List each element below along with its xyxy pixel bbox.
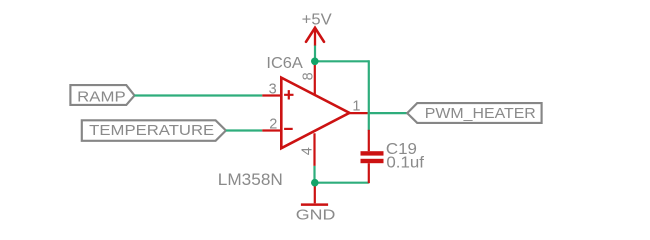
op-amp minus input mark <box>284 128 293 130</box>
wire pin1 to PWM_HEATER <box>368 112 408 114</box>
wire +5V to junction <box>314 46 316 62</box>
capacitor plates <box>361 151 384 155</box>
svg-text:4: 4 <box>300 147 316 155</box>
svg-text:IC6A: IC6A <box>266 55 303 72</box>
pin 4 stub <box>313 133 315 166</box>
svg-text:8: 8 <box>301 72 317 80</box>
svg-text:+5V: +5V <box>302 11 332 28</box>
capacitor top lead <box>368 130 370 151</box>
supply +5V arrow symbol <box>306 28 324 46</box>
wire right vertical (+5V net down to cap) <box>368 60 370 130</box>
wire junction to top-right corner <box>314 60 369 62</box>
pin 1 stub <box>349 112 367 114</box>
svg-text:RAMP: RAMP <box>77 88 126 105</box>
svg-text:3: 3 <box>269 82 277 98</box>
svg-text:PWM_HEATER: PWM_HEATER <box>425 105 536 122</box>
svg-text:TEMPERATURE: TEMPERATURE <box>89 122 214 139</box>
ground symbol <box>296 183 336 224</box>
wire pin4 to junction <box>313 166 315 183</box>
flag TEMPERATURE <box>82 120 226 141</box>
capacitor C19 <box>361 130 425 183</box>
svg-text:1: 1 <box>352 98 360 114</box>
junction dot bottom <box>311 179 319 187</box>
junction dot top <box>311 58 319 66</box>
pin 8 stub <box>314 61 316 95</box>
pin 3 stub <box>262 94 281 96</box>
wire RAMP to pin 3 <box>135 94 263 96</box>
svg-text:LM358N: LM358N <box>218 170 283 189</box>
svg-text:0.1uf: 0.1uf <box>386 155 424 172</box>
svg-text:GND: GND <box>296 207 336 223</box>
flag PWM_HEATER <box>407 103 541 123</box>
wire TEMPERATURE to pin 2 <box>226 129 262 131</box>
pin 2 stub <box>262 129 281 131</box>
op-amp plus input mark <box>284 90 293 99</box>
op-amp IC6A triangle <box>281 78 349 149</box>
wire bottom junction to capacitor <box>315 182 369 184</box>
svg-text:2: 2 <box>269 116 277 132</box>
capacitor bottom lead <box>368 163 370 183</box>
flag RAMP <box>70 85 134 105</box>
